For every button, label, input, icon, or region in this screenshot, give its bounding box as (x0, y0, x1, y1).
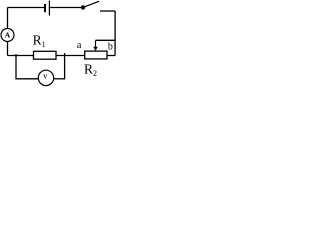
wire voltmeter bottom-right (54, 78, 65, 80)
ammeter A circle (1, 29, 14, 42)
wire switch right contact to top-right corner (100, 10, 115, 12)
svg-text:a: a (77, 40, 82, 51)
svg-text:v: v (43, 71, 48, 81)
node junction of voltmeter branch left (15, 54, 17, 79)
wire voltmeter bottom-left (16, 78, 39, 80)
wire right vertical (114, 11, 116, 56)
wire battery to switch (50, 7, 83, 9)
wire main horizontal (left corner to rheostat) (8, 55, 86, 57)
svg-text:b: b (108, 41, 113, 52)
switch S pivot dot (81, 5, 85, 9)
wire voltmeter branch right vertical up to main wire junction (64, 53, 66, 79)
rheostat R2 slider arrow (95, 41, 97, 48)
wire slider to right vertical (96, 39, 116, 41)
wire left vertical bottom (ammeter to main wire corner) (7, 41, 9, 55)
svg-text:A: A (5, 30, 11, 39)
wire rheostat right terminal connector (107, 55, 115, 57)
battery cell: long thin positive plate (48, 1, 50, 16)
voltmeter V circle (38, 70, 53, 85)
battery cell: short thick negative plate (44, 4, 46, 12)
switch S open blade (84, 1, 100, 7)
wire left vertical top (corner to ammeter) (7, 8, 9, 30)
wire top-left from corner to battery (8, 7, 45, 9)
rheostat R2 box (85, 51, 107, 59)
resistor R1 box (34, 51, 57, 59)
